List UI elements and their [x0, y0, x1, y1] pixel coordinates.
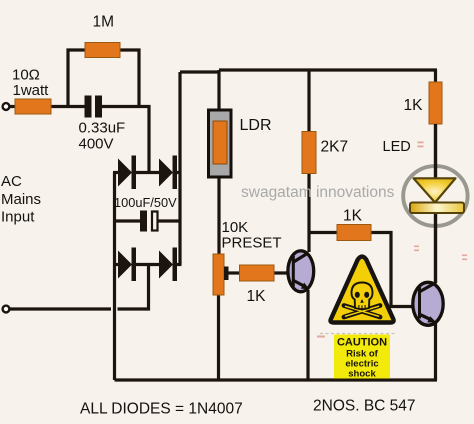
svg-text:LDR: LDR — [240, 117, 272, 134]
svg-text:1K: 1K — [343, 208, 363, 225]
svg-text:ALL DIODES = 1N4007: ALL DIODES = 1N4007 — [80, 401, 243, 418]
svg-text:1M: 1M — [93, 14, 115, 31]
svg-text:10K: 10K — [222, 219, 249, 236]
svg-text:1K: 1K — [247, 288, 267, 305]
svg-text:2NOS. BC 547: 2NOS. BC 547 — [313, 398, 416, 415]
svg-text:10Ω: 10Ω — [12, 67, 40, 84]
svg-text:LED: LED — [383, 139, 411, 155]
svg-text:2K7: 2K7 — [321, 139, 349, 156]
svg-text:1watt: 1watt — [13, 82, 50, 99]
svg-text:AC: AC — [1, 173, 22, 190]
svg-text:CAUTION: CAUTION — [337, 337, 387, 349]
svg-text:PRESET: PRESET — [222, 235, 282, 252]
svg-text:400V: 400V — [79, 136, 114, 153]
svg-text:Input: Input — [1, 209, 35, 226]
svg-text:0.33uF: 0.33uF — [79, 120, 126, 137]
svg-text:Mains: Mains — [1, 191, 41, 208]
svg-text:shock: shock — [348, 369, 376, 380]
svg-text:100uF/50V: 100uF/50V — [114, 195, 177, 210]
svg-text:swagatam innovations: swagatam innovations — [241, 184, 395, 201]
svg-text:1K: 1K — [404, 97, 424, 114]
